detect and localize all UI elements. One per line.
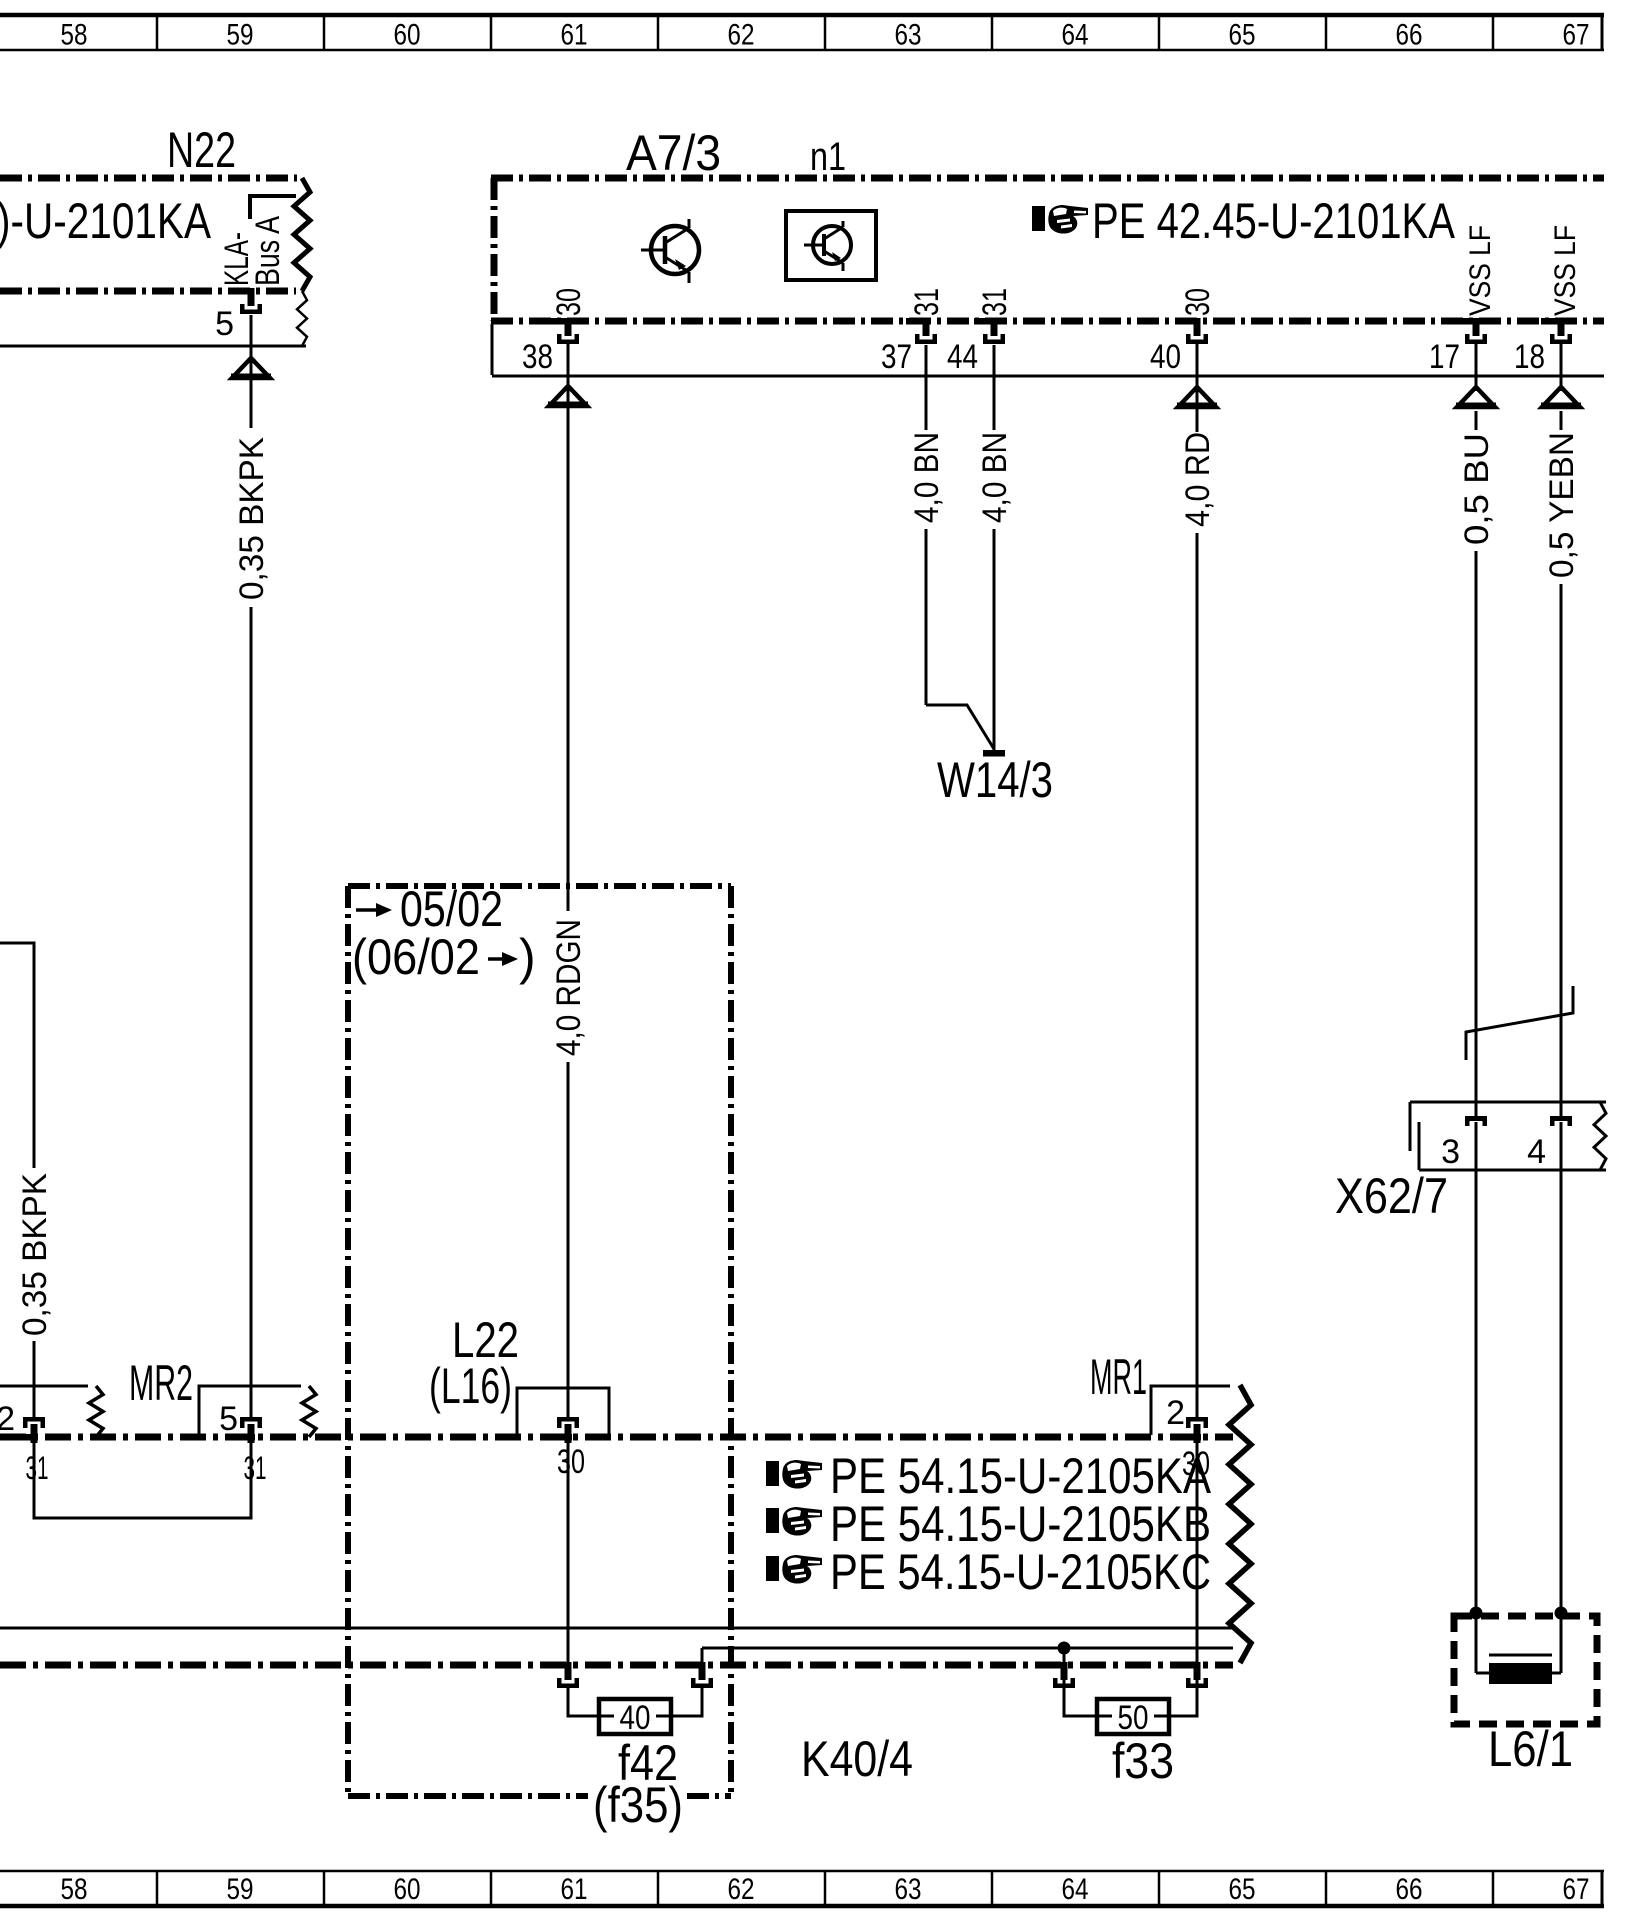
svg-text:38: 38 [522, 338, 553, 376]
svg-text:4,0 RD: 4,0 RD [1179, 432, 1217, 527]
svg-text:31: 31 [908, 288, 946, 316]
junction dot [1555, 1607, 1568, 1620]
wire pin18 0,5 YEBN [1560, 344, 1563, 391]
svg-text:65: 65 [1229, 1873, 1256, 1906]
transistor symbol 2 in box (n1) inside A7/3 [786, 211, 876, 280]
N22 connector group bracket KLA-Bus A [250, 196, 296, 219]
svg-text:2: 2 [0, 1400, 15, 1438]
svg-text:4,0 BN: 4,0 BN [908, 432, 946, 523]
svg-text:40: 40 [620, 1699, 651, 1737]
svg-text:0,5 BU: 0,5 BU [1458, 433, 1496, 545]
K40/4 pin for f42 right [682, 1662, 713, 1688]
f33 left lead [1064, 1648, 1097, 1716]
svg-text:X62/7: X62/7 [1335, 1168, 1448, 1224]
svg-text:40: 40 [1150, 338, 1181, 376]
svg-text:59: 59 [227, 1873, 254, 1906]
X62/7 socket pin 4 [1550, 1116, 1572, 1126]
X62/7 right break (zigzag) [1594, 1102, 1606, 1170]
svg-text:(L16): (L16) [429, 1358, 512, 1414]
svg-text:L6/1: L6/1 [1488, 1721, 1573, 1777]
svg-text:64: 64 [1062, 1873, 1089, 1906]
current direction arrow [231, 358, 271, 380]
cross reference PE 54.15-U-2105KA [766, 1460, 822, 1489]
svg-text:0,35 BKPK: 0,35 BKPK [16, 1173, 54, 1336]
rpm sensor L6/1 [1454, 1616, 1597, 1724]
wire pin38 4,0 RDGN [567, 344, 570, 911]
fuse f42 (f35) [599, 1699, 671, 1734]
current direction arrow [1456, 387, 1496, 409]
ground point W14/3 [983, 750, 1005, 757]
f42 left lead [568, 1688, 599, 1716]
svg-text:61: 61 [561, 19, 588, 52]
svg-text:17: 17 [1429, 338, 1460, 376]
svg-text:4: 4 [1527, 1133, 1546, 1171]
junction dot [1470, 1607, 1483, 1620]
svg-text:0,5 YEBN: 0,5 YEBN [1543, 432, 1581, 578]
svg-text:MR1: MR1 [1090, 1349, 1147, 1405]
svg-text:Bus A: Bus A [249, 216, 287, 286]
wire N22 pin5 down, 0,35 BKPK [250, 315, 253, 428]
wires through X62/7 down to L6/1 [1475, 1122, 1478, 1613]
current direction arrow [548, 386, 588, 408]
link wire pin2-31 to pin5-31 inside K40/4 [34, 1443, 251, 1518]
svg-text:(f35): (f35) [593, 1777, 683, 1833]
control unit N22 (overhead control panel), partial box [0, 122, 297, 291]
svg-text:0,35 BKPK: 0,35 BKPK [233, 437, 271, 600]
variant box 05/02 (06/02) dash-dot [348, 886, 731, 1796]
K40/4 pin for f33 left [1044, 1662, 1075, 1688]
wire pin40 4,0 RD [1196, 344, 1199, 432]
svg-text:31: 31 [976, 288, 1014, 316]
svg-text:64: 64 [1062, 19, 1089, 52]
svg-text:2: 2 [1166, 1394, 1185, 1432]
wire segment to L22 pin [567, 1062, 570, 1419]
N22 right edge break (zigzag) [294, 178, 310, 291]
K40/4 bottom edge [0, 1662, 1233, 1669]
svg-text:67: 67 [1563, 1873, 1590, 1906]
control unit A7/3 with amplifier n1 [491, 125, 1604, 321]
svg-text:30: 30 [550, 288, 588, 316]
svg-text:65: 65 [1229, 19, 1256, 52]
connector X62/7 [1410, 1102, 1606, 1170]
wire segment down to MR1 pin 2 [1196, 533, 1199, 1419]
wire pin17 0,5 BU [1475, 344, 1478, 391]
bus bar line B inside K40/4 [702, 1647, 1233, 1650]
fuse f33 [1097, 1699, 1169, 1734]
wire joint to ground point [926, 705, 994, 749]
svg-text:3: 3 [1441, 1133, 1460, 1171]
svg-text:63: 63 [895, 1873, 922, 1906]
svg-text:63: 63 [895, 19, 922, 52]
svg-text:n1: n1 [810, 135, 846, 179]
wire from left margin, 0,35 BKPK [0, 943, 34, 1168]
svg-text:66: 66 [1396, 1873, 1423, 1906]
transistor symbol 1 inside A7/3 [641, 219, 699, 283]
current direction arrow [1177, 387, 1217, 409]
cross reference PE 54.15-U-2105KB [766, 1507, 822, 1536]
current direction arrow [1541, 387, 1581, 409]
wire segment down to MR2 pin 2 [33, 1341, 36, 1419]
svg-text:37: 37 [881, 338, 912, 376]
X62/7 socket pin 3 [1465, 1116, 1487, 1126]
svg-text:60: 60 [394, 1873, 421, 1906]
svg-text:4,0 RDGN: 4,0 RDGN [550, 919, 588, 1056]
svg-text:59: 59 [227, 19, 254, 52]
wire pin44 4,0 BN [993, 345, 996, 430]
f33 right lead [1169, 1688, 1197, 1716]
K40/4 right edge break (zigzag) [1229, 1385, 1251, 1663]
svg-text:)-U-2101KA: )-U-2101KA [0, 193, 212, 249]
twisted pair marker [1466, 986, 1573, 1060]
wire pin37 4,0 BN [925, 345, 928, 430]
fuse/relay box K40/4 top edge [0, 1434, 1233, 1441]
svg-text:67: 67 [1563, 19, 1590, 52]
svg-text:A7/3: A7/3 [626, 125, 721, 181]
svg-text:58: 58 [61, 1873, 88, 1906]
component MR2 partial box, pin 5 [199, 1386, 301, 1437]
N22 connector strip bottom line [0, 345, 306, 348]
svg-text:K40/4: K40/4 [801, 1731, 913, 1787]
svg-text:PE 42.45-U-2101KA: PE 42.45-U-2101KA [1092, 193, 1456, 249]
K40/4 pin for f42 left [548, 1662, 579, 1688]
svg-text:61: 61 [561, 1873, 588, 1906]
svg-text:50: 50 [1118, 1699, 1149, 1737]
svg-text:18: 18 [1514, 338, 1545, 376]
svg-text:4,0 BN: 4,0 BN [976, 432, 1014, 523]
svg-text:31: 31 [26, 1450, 49, 1486]
svg-text:30: 30 [557, 1443, 585, 1481]
svg-text:PE 54.15-U-2105KC: PE 54.15-U-2105KC [830, 1544, 1211, 1600]
top coordinate ruler [0, 15, 1604, 52]
svg-text:30: 30 [1179, 288, 1217, 316]
f42 right lead [671, 1688, 702, 1716]
junction dot on line B [1058, 1642, 1071, 1655]
N22 pin 5 [231, 288, 262, 314]
svg-text:MR2: MR2 [129, 1355, 193, 1411]
svg-text:VSS LF: VSS LF [1464, 225, 1497, 316]
svg-text:5: 5 [219, 1400, 238, 1438]
component MR2 partial box, pin 2 [0, 1385, 88, 1388]
variant arrow 05/02 [356, 903, 392, 917]
bottom coordinate ruler [0, 1871, 1604, 1906]
svg-text:5: 5 [215, 305, 234, 343]
wire segment through K40/4 to fuse f33 [1196, 1443, 1199, 1688]
svg-text:58: 58 [61, 19, 88, 52]
wire segment down to MR2 pin 5 [250, 607, 253, 1419]
A7/3 connector strip [491, 324, 494, 375]
svg-text:62: 62 [728, 19, 755, 52]
svg-text:31: 31 [244, 1450, 267, 1486]
svg-text:(06/02: (06/02 [352, 929, 480, 985]
wire segment through K40/4 to fuse f42 [567, 1443, 570, 1663]
svg-text:): ) [519, 929, 536, 985]
component L22 bracket [517, 1388, 609, 1437]
svg-text:N22: N22 [167, 122, 236, 178]
svg-text:W14/3: W14/3 [937, 752, 1053, 808]
svg-text:62: 62 [728, 1873, 755, 1906]
sensor element [1476, 1613, 1561, 1684]
svg-text:VSS LF: VSS LF [1549, 225, 1582, 316]
bus bar line A inside K40/4 [0, 1627, 1233, 1630]
svg-text:60: 60 [394, 19, 421, 52]
svg-text:f33: f33 [1112, 1733, 1174, 1789]
svg-text:66: 66 [1396, 19, 1423, 52]
component MR1 partial box, pin 2 [1151, 1386, 1230, 1435]
cross reference PE 42.45-U-2101KA [1032, 205, 1088, 234]
svg-text:44: 44 [947, 338, 978, 376]
cross reference PE 54.15-U-2105KC [766, 1555, 822, 1584]
K40/4 pin for f33 right [1177, 1662, 1208, 1688]
L22 pin, terminal 30 [551, 1417, 579, 1443]
